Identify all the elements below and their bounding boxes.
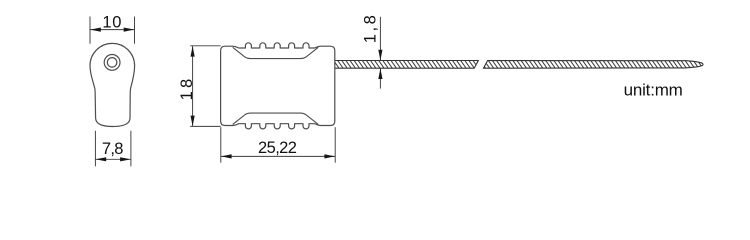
dimension 10: arrows <box>90 28 134 32</box>
dimension 7,8: extension lines <box>95 131 130 167</box>
dimension 18: arrows <box>191 46 195 126</box>
dimension 1,8: dimension line segments <box>379 17 381 89</box>
cable segment 2 hatch strands <box>480 60 704 69</box>
cable segment 1 hatch strands <box>329 60 483 69</box>
dimension 25,22: arrows <box>221 154 335 158</box>
body inner top recess line <box>233 47 319 58</box>
svg-text:18: 18 <box>178 76 196 101</box>
dimension 25,22: extension lines <box>221 127 335 163</box>
svg-text:10: 10 <box>102 14 122 32</box>
svg-text:25,22: 25,22 <box>258 139 297 157</box>
dimension 10: extension lines <box>90 17 135 44</box>
cable segment 2 outline <box>484 61 704 69</box>
body inner bottom recess line <box>233 113 319 124</box>
svg-text:1,8: 1,8 <box>361 13 379 44</box>
dimension 7,8: arrows <box>96 157 131 161</box>
side view: rivet hole outer circle <box>104 55 120 71</box>
side view: rivet hole inner circle <box>107 58 117 68</box>
body front view outline with ribs <box>221 43 335 129</box>
cable segment 1 outline <box>335 61 478 69</box>
dimension 1,8: arrows <box>378 50 382 79</box>
side view: seal head and foot outline <box>90 43 135 126</box>
svg-text:unit:mm: unit:mm <box>624 81 683 100</box>
svg-text:7,8: 7,8 <box>102 140 123 158</box>
dimension 18: extension lines <box>190 46 220 127</box>
